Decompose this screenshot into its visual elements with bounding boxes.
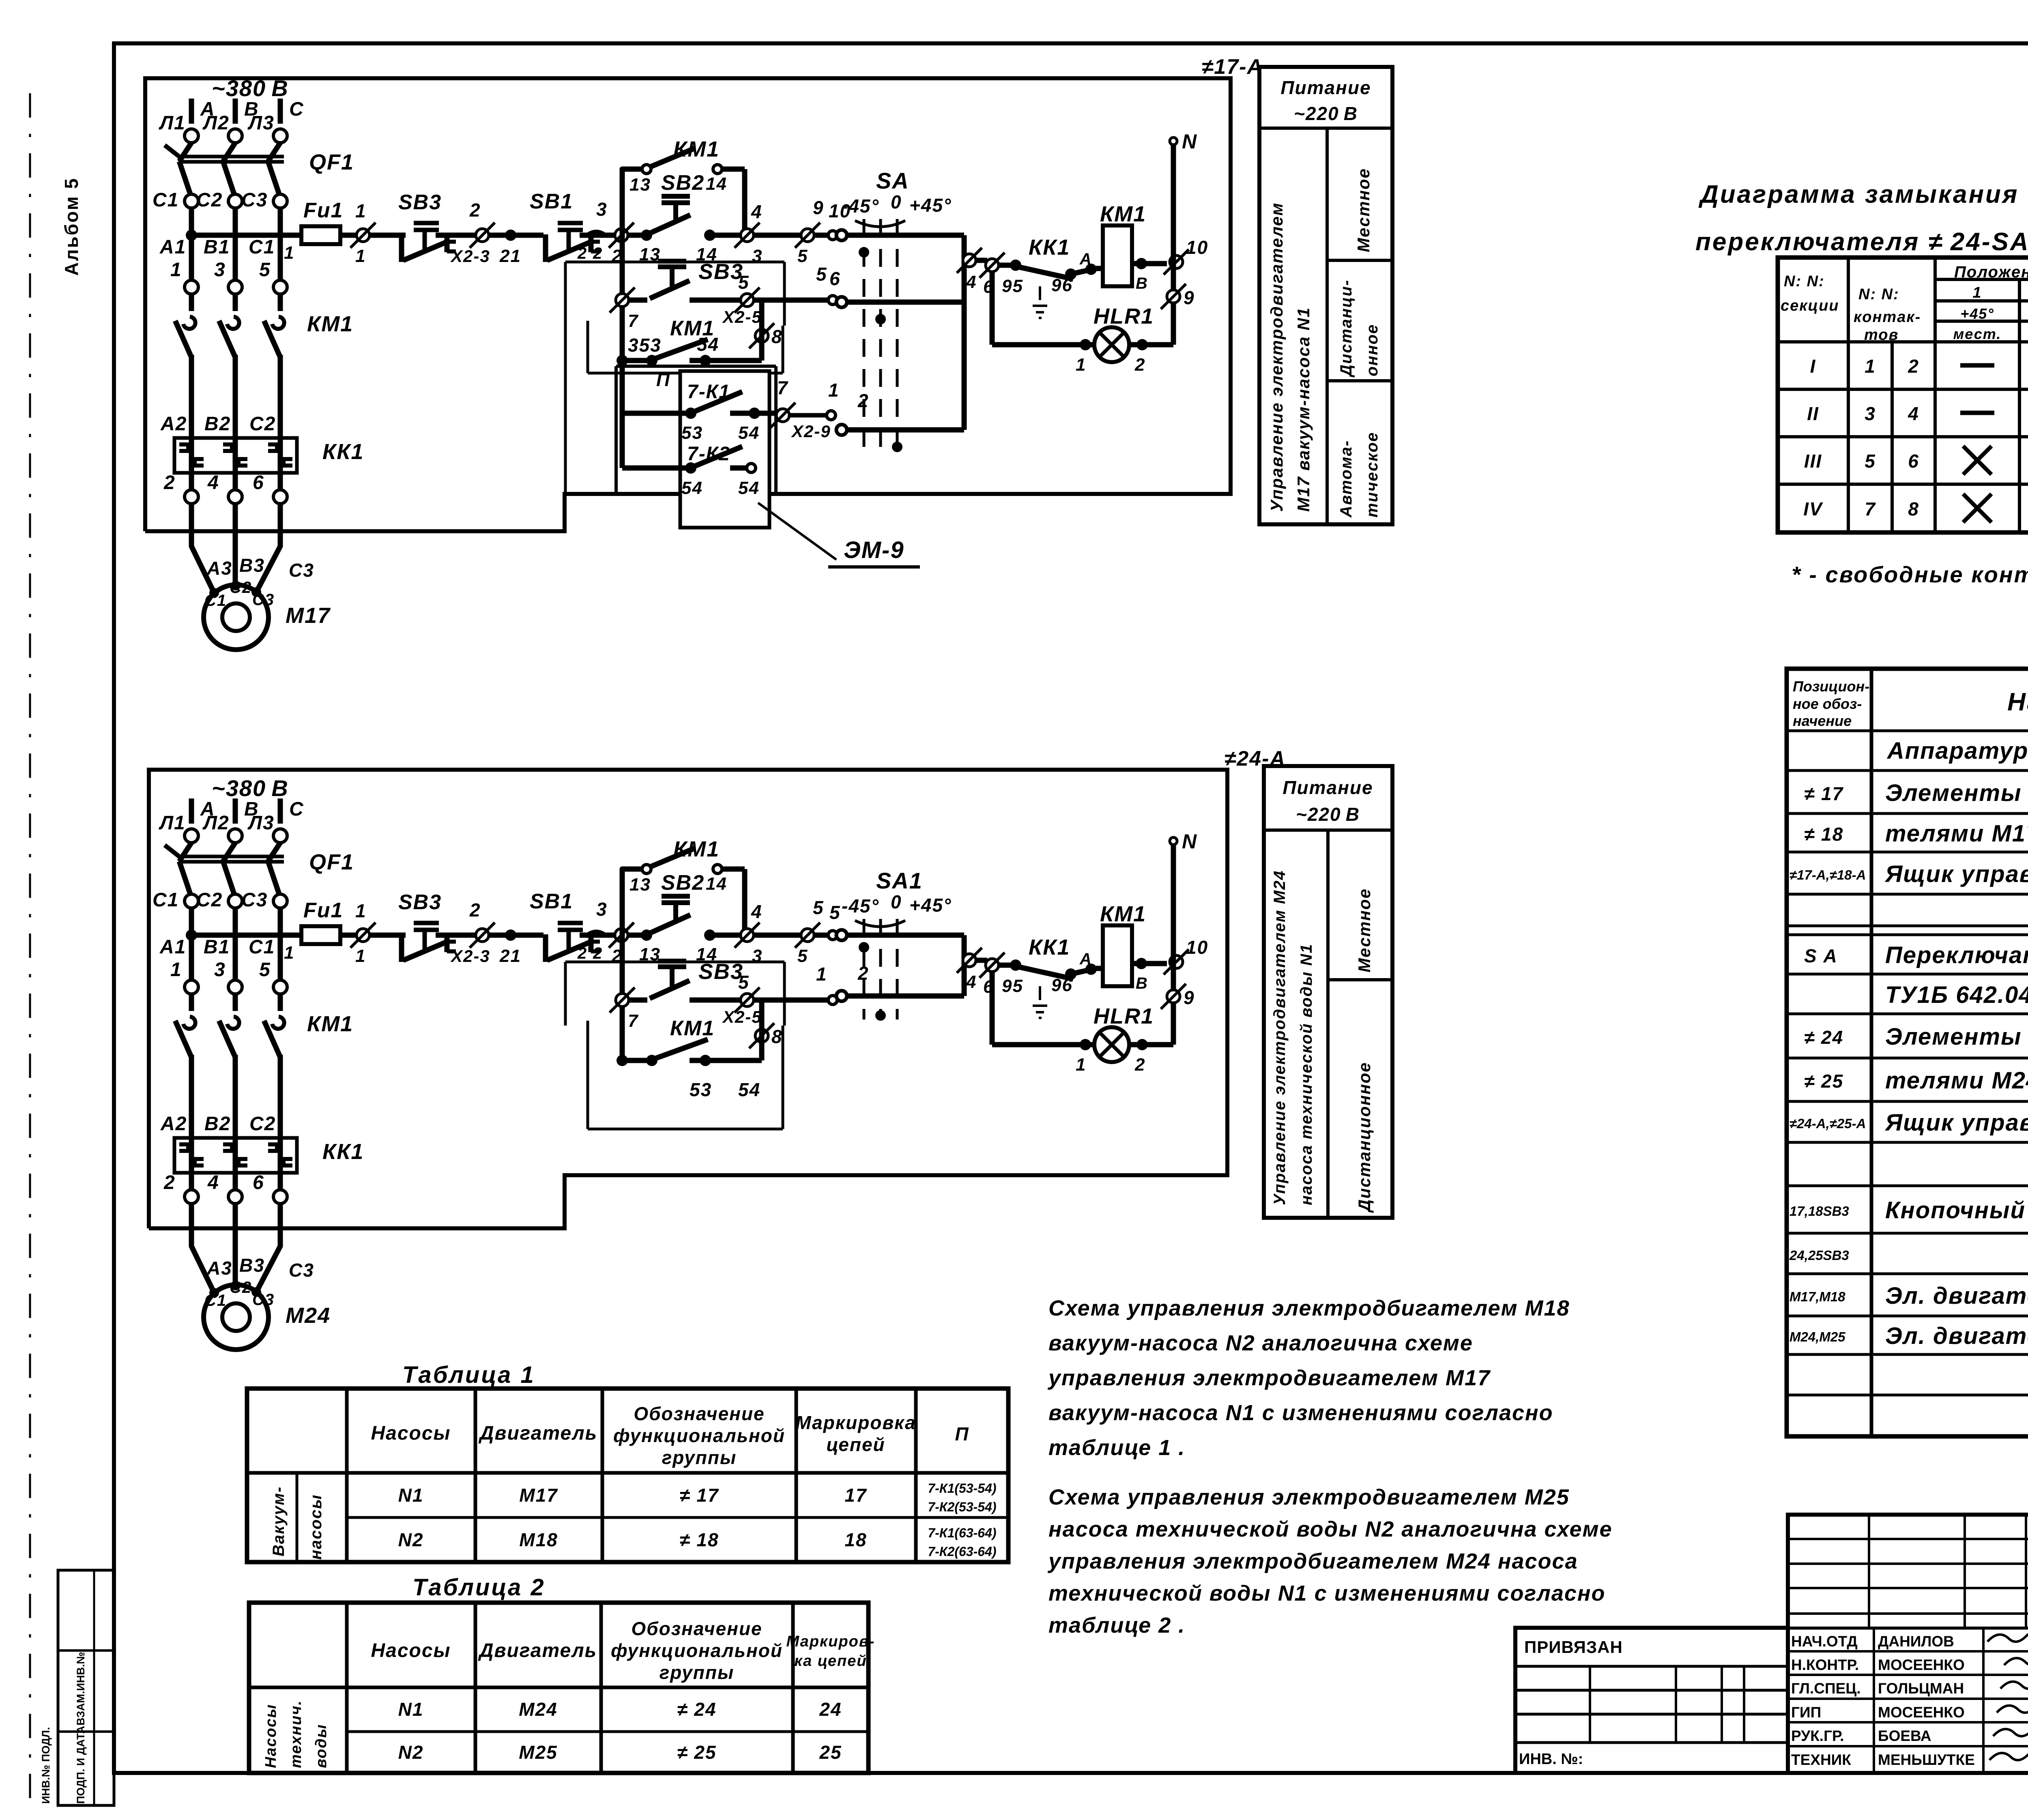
svg-text:Диаграмма замыкания контакто: Диаграмма замыкания контактов [1698,180,2028,208]
svg-text:2: 2 [163,1172,176,1193]
svg-text:А1: А1 [159,936,186,958]
svg-text:Управление электродвигателем М: Управление электродвигателем М24 [1271,870,1289,1205]
svg-text:С3: С3 [241,189,268,211]
svg-text:4: 4 [207,472,219,494]
svg-text:Л1: Л1 [159,112,186,134]
thermal relay KK1 heaters [174,438,297,473]
svg-text:онное: онное [1363,324,1381,376]
svg-text:П: П [656,369,670,390]
svg-text:МОСЕЕНКО: МОСЕЕНКО [1878,1704,1965,1721]
svg-text:мест.: мест. [1953,326,2002,342]
svg-text:С3: С3 [252,1291,275,1309]
svg-text:начение: начение [1793,713,1852,729]
svg-text:≠17-А: ≠17-А [1202,55,1263,79]
svg-text:В3: В3 [239,1255,265,1276]
svg-text:технической воды N1 с изме: технической воды N1 с изменениями соглас… [1048,1581,1606,1605]
svg-text:насоса технической воды N2: насоса технической воды N2 аналогична сх… [1048,1517,1613,1541]
terminal С1 [185,894,198,908]
svg-text:8: 8 [771,1026,783,1047]
svg-text:7-К1(53-54): 7-К1(53-54) [928,1481,996,1496]
svg-text:2: 2 [163,472,176,494]
svg-text:М17 вакуум-насоса N1: М17 вакуум-насоса N1 [1294,307,1313,512]
svg-text:SB1: SB1 [530,890,573,913]
wire phase drop [278,908,283,980]
svg-text:14: 14 [706,174,727,194]
svg-text:SA1: SA1 [876,868,923,893]
svg-text:В2: В2 [204,1113,231,1135]
svg-text:5: 5 [829,902,841,923]
svg-text:Fu1: Fu1 [303,199,343,222]
wire phase drop [189,208,194,280]
svg-text:ка цепей: ка цепей [794,1653,867,1670]
svg-text:IV: IV [1803,498,1823,519]
svg-text:N: N [1182,830,1197,853]
svg-text:воды: воды [313,1724,330,1768]
svg-text:SВ2: SВ2 [661,871,705,895]
svg-text:1: 1 [170,959,182,981]
svg-text:SB3: SB3 [398,891,442,914]
svg-text:≠ 18: ≠ 18 [679,1529,719,1550]
svg-text:≠ 24: ≠ 24 [677,1699,716,1720]
svg-text:10: 10 [829,200,851,221]
svg-text:С2: С2 [196,189,223,211]
wire phase drop [189,908,194,980]
svg-text:Схема управления электродбиг: Схема управления электродбигателем М18 [1048,1296,1570,1320]
terminal 5 [801,929,814,942]
svg-text:Схема управления электродвиг: Схема управления электродвигателем М25 [1048,1485,1570,1509]
enclosure box 24-A [149,770,1227,1228]
svg-text:секции: секции [1781,297,1839,314]
svg-text:Местное: Местное [1354,168,1373,252]
svg-text:5: 5 [259,959,271,981]
svg-text:3: 3 [596,899,608,920]
terminal 10 [1170,255,1183,268]
wire phase С stub [278,99,283,124]
svg-text:КМ1: КМ1 [1100,902,1146,926]
legend: power 220V box 2 [1264,766,1392,1218]
svg-text:КК1: КК1 [322,1140,364,1164]
svg-text:С3: С3 [241,889,268,911]
terminal 4 [228,1190,242,1204]
table: contact closure diagram 24-SA1 [1778,258,2028,532]
svg-text:1: 1 [1076,355,1086,375]
svg-text:HLR1: HLR1 [1093,1004,1154,1028]
svg-text:7: 7 [1865,498,1876,519]
svg-text:С1: С1 [249,236,275,258]
box EM-9 (fill) [680,371,769,528]
svg-text:Автома-: Автома- [1337,440,1355,518]
svg-text:ЭМ-9: ЭМ-9 [844,537,904,563]
svg-text:вакуум-насоса N1 с изменени: вакуум-насоса N1 с изменениями согласно [1048,1401,1553,1425]
svg-text:ИНВ. №:: ИНВ. №: [1519,1751,1583,1768]
svg-text:N: N:: N: N: [1858,286,1899,303]
title block [1515,1628,1788,1773]
svg-text:Х2-9: Х2-9 [791,422,831,441]
svg-text:7-К1: 7-К1 [687,381,730,403]
svg-text:Переключатель ПКУ-3-12С3033: Переключатель ПКУ-3-12С3033 [1885,942,2028,968]
node control tap junction [186,929,197,941]
svg-text:25: 25 [819,1742,842,1763]
terminal 2 [615,929,628,942]
svg-text:0: 0 [891,191,902,212]
terminal 10 [1170,955,1183,968]
switch shaft dashed line [863,219,866,453]
svg-text:1: 1 [1865,356,1876,377]
svg-text:4: 4 [966,272,977,292]
svg-text:3: 3 [214,259,226,281]
enclosure box 17-A [145,78,1231,531]
svg-text:ное обоз-: ное обоз- [1793,695,1862,712]
svg-text:Эл. двигатель 4А160М4У3; 18.: Эл. двигатель 4А160М4У3; 18.5 кВт [1885,1283,2028,1309]
terminal 5 [801,229,814,242]
svg-text:ПРИВЯЗАН: ПРИВЯЗАН [1524,1638,1623,1657]
svg-text:Таблица 2: Таблица 2 [412,1574,546,1601]
wire 53-54 to terminal 8 [705,358,762,363]
svg-text:QF1: QF1 [309,150,354,174]
terminal С3 [273,194,287,208]
wire phase В stub [233,798,238,824]
label EM-9 pointer [758,503,836,560]
terminal 2 [185,490,198,504]
switch shaft dashed line [896,919,899,1019]
terminal X2-5 [741,294,754,307]
switch contact 2 [836,425,847,435]
svg-text:В1: В1 [204,236,230,258]
svg-text:С1: С1 [204,592,227,610]
svg-text:≠17-А,≠18-А: ≠17-А,≠18-А [1790,867,1866,882]
svg-text:24,25SВ3: 24,25SВ3 [1789,1248,1849,1263]
svg-text:1: 1 [355,200,367,221]
interlock box P [616,365,776,368]
svg-text:телями М17 , М18: телями М17 , М18 [1885,820,2028,847]
svg-text:группы: группы [662,1447,737,1468]
table: component list [1787,669,2028,1436]
svg-text:5: 5 [797,946,808,966]
svg-text:14: 14 [706,874,727,894]
svg-text:95: 95 [1002,976,1023,996]
svg-text:Позицион-: Позицион- [1793,678,1869,695]
svg-text:Н.КОНТР.: Н.КОНТР. [1791,1657,1859,1673]
wire phase А stub [189,798,194,824]
svg-text:контак-: контак- [1854,309,1921,326]
svg-text:353: 353 [628,335,662,356]
svg-text:53: 53 [690,1079,712,1100]
node control tap junction [186,230,197,241]
svg-text:1: 1 [284,943,294,963]
svg-text:4: 4 [751,201,763,222]
neutral wire N [1171,844,1176,1045]
terminal С2 [228,194,242,208]
terminal 3 [228,280,242,294]
svg-text:2: 2 [857,963,869,984]
svg-text:Элементы управления электрод: Элементы управления электродвига- [1885,780,2028,806]
svg-text:Аппаратура по месту: Аппаратура по месту [1886,738,2028,764]
svg-text:насоса технической воды N1: насоса технической воды N1 [1298,943,1315,1205]
svg-text:Положение рукоятки: Положение рукоятки [1954,263,2028,281]
svg-text:А3: А3 [206,1258,232,1279]
terminal Л1 [185,129,198,143]
svg-text:переключателя ≠ 24-SА1 ; 25-S: переключателя ≠ 24-SА1 ; 25-SА1 [1695,228,2028,256]
svg-text:Л3: Л3 [247,812,275,834]
svg-text:КМ1: КМ1 [670,1017,715,1040]
svg-text:Двигатель: Двигатель [478,1423,597,1444]
terminal 1 [357,229,370,242]
inner partition local section 2 [586,1021,589,1129]
pushbutton SB3 remote stop row [616,294,629,307]
terminal 3 [228,980,242,994]
svg-text:ПОДП. И ДАТА: ПОДП. И ДАТА [75,1726,87,1804]
svg-text:Обозначение: Обозначение [634,1403,765,1424]
svg-text:КМ1: КМ1 [1100,202,1146,226]
svg-text:ДАНИЛОВ: ДАНИЛОВ [1878,1633,1954,1650]
wire switch collector [962,235,967,430]
terminal 6 [273,1190,287,1204]
switch shaft dashed line [879,919,882,1019]
svg-text:Дистанционное: Дистанционное [1355,1062,1374,1213]
table 2: technical water pumps [249,1603,868,1773]
terminal Л2 [228,129,242,143]
svg-text:А: А [1079,250,1092,268]
svg-text:таблице 1 .: таблице 1 . [1048,1436,1185,1460]
svg-text:54: 54 [697,334,719,355]
terminal 9 [1167,990,1180,1003]
svg-text:1: 1 [355,946,366,966]
svg-text:13: 13 [629,875,651,895]
svg-text:4: 4 [207,1172,219,1193]
terminal 6 [986,259,999,272]
svg-text:≠ 25: ≠ 25 [677,1742,716,1763]
svg-text:Наименование: Наименование [2007,688,2028,716]
svg-text:17: 17 [844,1485,867,1506]
svg-text:N2: N2 [398,1529,424,1550]
svg-text:тическое: тическое [1363,432,1381,517]
svg-text:2: 2 [577,245,587,262]
svg-text:8: 8 [771,326,783,347]
svg-text:С1: С1 [249,936,275,958]
svg-text:Обозначение: Обозначение [631,1618,762,1639]
svg-text:М25: М25 [519,1742,557,1763]
contactor KM1 main contacts [189,294,194,311]
svg-text:Вакуум-: Вакуум- [270,1486,288,1556]
svg-text:Таблица 1: Таблица 1 [402,1362,535,1388]
svg-text:ВЗАМ.ИНВ.№: ВЗАМ.ИНВ.№ [75,1652,87,1726]
svg-text:1: 1 [816,964,827,985]
terminal 9 [1167,290,1180,303]
svg-text:Х2-5: Х2-5 [722,1007,762,1026]
svg-text:7: 7 [628,311,639,331]
svg-text:6: 6 [1908,451,1919,472]
svg-text:М17: М17 [519,1485,558,1506]
svg-text:9: 9 [813,197,824,218]
svg-text:24: 24 [819,1699,842,1720]
svg-text:≠24-А,≠25-А: ≠24-А,≠25-А [1790,1116,1866,1131]
svg-text:С2: С2 [230,1279,252,1296]
svg-text:КМ1: КМ1 [673,837,720,861]
terminal X2-3 [476,229,489,242]
svg-text:7-К2(53-54): 7-К2(53-54) [928,1500,996,1514]
wire control feed [191,933,301,938]
svg-text:Альбом 5: Альбом 5 [61,177,82,276]
switch contact 5 [836,930,847,940]
svg-text:2: 2 [1908,356,1919,377]
terminal 8 [755,329,768,342]
svg-text:3: 3 [596,199,608,220]
svg-text:КМ1: КМ1 [673,137,720,161]
svg-text:технич.: технич. [288,1700,305,1768]
svg-text:N1: N1 [398,1699,424,1720]
svg-text:~220 В: ~220 В [1296,804,1360,825]
svg-text:~380 В: ~380 В [212,75,289,101]
relay contact 7-K1 [622,411,691,416]
svg-text:Ящик управления Я5111-3574УХ: Ящик управления Я5111-3574УХЛ4 [1884,1110,2028,1136]
svg-text:Кнопочный пост ПКЕ-222-2У3: Кнопочный пост ПКЕ-222-2У3 [1885,1197,2028,1223]
terminal 2 [185,1190,198,1204]
legend: power 220V box 1 [1259,67,1392,524]
inner partition local section [586,321,589,373]
svg-text:7-К2(63-64): 7-К2(63-64) [928,1544,996,1559]
svg-text:Насосы: Насосы [371,1423,451,1444]
terminal 6 [273,490,287,504]
table 1: vacuum pumps [247,1389,1008,1562]
svg-text:С1: С1 [204,1292,227,1309]
svg-text:+45°: +45° [909,195,952,216]
svg-text:1: 1 [170,259,182,281]
svg-text:4: 4 [751,901,763,922]
svg-text:ГЛ.СПЕЦ.: ГЛ.СПЕЦ. [1791,1680,1861,1697]
svg-text:С3: С3 [289,1260,314,1281]
svg-text:Л2: Л2 [202,112,230,134]
wire vertical bus (sch2) [620,935,625,1060]
svg-text:функциональной: функциональной [611,1640,783,1661]
svg-text:3: 3 [214,959,226,981]
svg-text:9: 9 [1184,987,1195,1008]
svg-text:Х2-3: Х2-3 [450,946,490,966]
title block signatures grid [1788,1515,2028,1773]
svg-text:53: 53 [681,423,703,443]
svg-text:телями М24 , М25: телями М24 , М25 [1885,1067,2028,1094]
terminal 1 [185,280,198,294]
svg-text:Л3: Л3 [247,112,275,134]
svg-text:МОСЕЕНКО: МОСЕЕНКО [1878,1657,1965,1673]
svg-text:3: 3 [1865,403,1876,424]
wire vertical bus [620,235,625,413]
svg-text:С: С [289,798,304,820]
svg-text:2: 2 [857,390,869,411]
svg-text:С2: С2 [196,889,223,911]
svg-text:17,18SВ3: 17,18SВ3 [1790,1204,1849,1219]
terminal X2-9 [764,411,778,416]
svg-text:~380 В: ~380 В [212,775,289,801]
terminal 3 [741,229,754,242]
svg-text:ТУ1Б 642.046-8Б: ТУ1Б 642.046-8Б [1885,982,2028,1008]
terminal С3 [273,894,287,908]
svg-text:С1: С1 [153,889,179,911]
contactor KM1 aux contact 13-14 (seal-in branch) [622,169,642,235]
svg-text:2: 2 [1134,1055,1145,1075]
svg-text:18: 18 [844,1529,867,1550]
svg-text:С2: С2 [249,1113,276,1135]
svg-text:В1: В1 [204,936,230,958]
svg-text:1: 1 [355,246,366,266]
svg-text:54: 54 [738,1079,760,1100]
svg-text:КК1: КК1 [1029,235,1070,260]
svg-text:Х2-3: Х2-3 [450,247,490,266]
svg-text:тов: тов [1864,326,1899,343]
svg-text:21: 21 [499,946,521,966]
svg-text:95: 95 [1002,276,1023,296]
switch shaft dashed line [896,219,899,453]
svg-text:54: 54 [681,478,703,498]
svg-text:SB3: SB3 [398,191,442,214]
wire feed to coil [964,258,987,263]
svg-text:Л2: Л2 [202,812,230,834]
svg-text:А1: А1 [159,236,186,258]
svg-text:N1: N1 [398,1485,424,1506]
svg-text:управления электродбигателем: управления электродбигателем М24 насоса [1047,1549,1578,1573]
wire feed to coil [964,958,987,963]
svg-text:В2: В2 [204,413,231,435]
svg-text:В: В [1136,275,1148,292]
svg-text:≠ 17: ≠ 17 [679,1485,719,1506]
svg-text:6: 6 [829,268,841,289]
svg-text:Х2-5: Х2-5 [722,307,762,326]
bottom-left inventory stamp [58,1570,114,1805]
svg-text:5: 5 [813,897,824,918]
svg-text:SA: SA [876,168,909,193]
switch contact 6 [836,297,847,307]
svg-text:54: 54 [738,478,760,498]
svg-text:N: N [1182,130,1197,153]
terminal Л1 [185,829,198,843]
fuse Fu1 [301,226,340,244]
svg-text:КМ1: КМ1 [307,312,353,336]
svg-text:10: 10 [1186,937,1208,958]
node 21 junction [505,230,516,241]
svg-text:S А: S А [1804,945,1838,966]
svg-text:4: 4 [966,972,977,992]
svg-text:10: 10 [1186,237,1208,258]
wire phase drop [233,908,238,980]
svg-text:96: 96 [1051,275,1073,295]
svg-text:2: 2 [1134,355,1145,375]
svg-text:М17,М18: М17,М18 [1790,1289,1845,1304]
svg-text:+45°: +45° [909,895,952,916]
svg-text:~220 В: ~220 В [1294,103,1358,124]
left trim dash-dot line [29,93,31,1813]
terminal С2 [228,894,242,908]
terminal Л3 [273,129,287,143]
svg-text:М17: М17 [286,603,331,628]
svg-text:управления электродвигателем: управления электродвигателем М17 [1047,1366,1491,1390]
svg-text:96: 96 [1051,975,1073,995]
terminal 1 [185,980,198,994]
svg-text:1: 1 [1972,284,1982,301]
relay contact 7-K2 [620,413,625,468]
svg-text:ГИП: ГИП [1791,1704,1821,1721]
svg-text:1: 1 [1076,1055,1086,1075]
thermal relay KK1 heaters [174,1138,297,1173]
svg-text:5: 5 [738,972,750,993]
svg-text:21: 21 [499,246,521,266]
wire to motor [191,504,214,593]
svg-text:2: 2 [593,245,603,262]
svg-text:5: 5 [797,246,808,266]
terminal X2-3 [476,929,489,942]
svg-text:8: 8 [1908,498,1919,519]
svg-text:SB1: SB1 [530,190,573,213]
svg-text:вакуум-насоса N2 аналогична: вакуум-насоса N2 аналогична схеме [1048,1331,1473,1355]
svg-text:насосы: насосы [307,1494,325,1560]
